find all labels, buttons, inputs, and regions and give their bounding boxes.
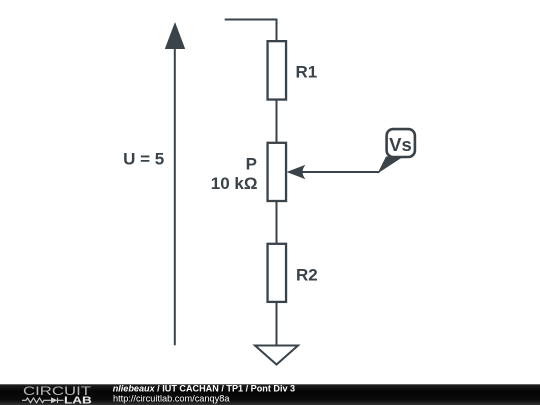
node Vs box bbox=[387, 129, 415, 157]
svg-text:http://circuitlab.com/canqy8a: http://circuitlab.com/canqy8a bbox=[113, 393, 230, 403]
ground bbox=[255, 346, 298, 365]
resistor R1 body bbox=[268, 41, 287, 99]
svg-text:10 kΩ: 10 kΩ bbox=[211, 174, 258, 193]
resistor R2 body bbox=[268, 244, 287, 302]
wire R2 to ground bbox=[276, 302, 278, 345]
voltage arrow line U bbox=[174, 46, 176, 345]
wire top horizontal from source column to R1 bbox=[225, 20, 277, 42]
svg-text:P: P bbox=[246, 155, 257, 174]
potentiometer P body bbox=[268, 143, 287, 201]
wire wiper to Vs bbox=[299, 171, 380, 173]
potentiometer wiper arrow head bbox=[287, 165, 306, 179]
svg-text:LAB: LAB bbox=[64, 394, 92, 405]
CircuitLab logo resistor zigzag and diode bbox=[22, 398, 64, 404]
svg-text:Vs: Vs bbox=[389, 134, 412, 155]
voltage arrow head U bbox=[165, 22, 185, 49]
wire R1 to P bbox=[276, 100, 278, 142]
node Vs flag tail bbox=[378, 157, 404, 174]
svg-text:nliebeaux / IUT CACHAN / TP1 /: nliebeaux / IUT CACHAN / TP1 / Pont Div … bbox=[113, 383, 295, 393]
svg-text:R1: R1 bbox=[296, 63, 318, 82]
svg-text:U = 5: U = 5 bbox=[123, 149, 164, 168]
svg-text:R2: R2 bbox=[296, 266, 318, 285]
wire P to R2 bbox=[276, 201, 278, 243]
